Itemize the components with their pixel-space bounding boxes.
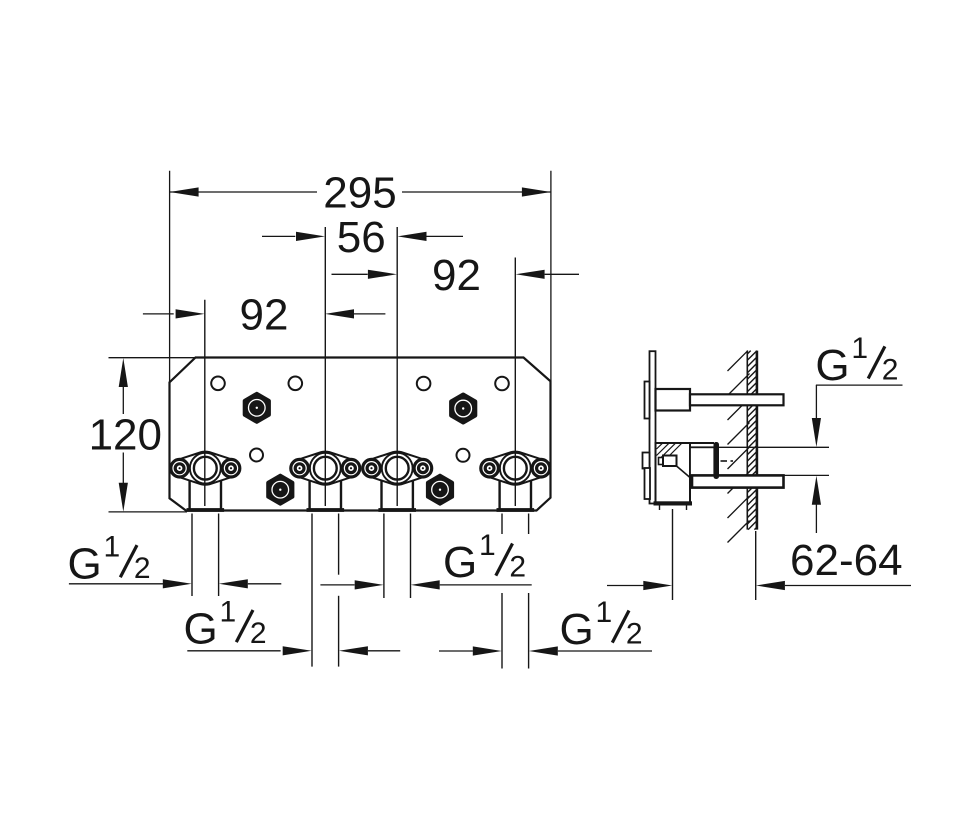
union fitting 3 (wing outline) — [363, 452, 432, 485]
mounting hole 2 (top row) — [289, 377, 303, 391]
62-64 extension line (wall face) — [755, 531, 757, 600]
G 1/2 reference line (thread bottom) — [785, 474, 830, 476]
centre line fitting 1 — [204, 300, 206, 506]
G 1/2 leader and arrows (side view) — [816, 384, 903, 386]
fitting 2 thread extension lines — [311, 514, 313, 667]
tab 4 below fitting — [498, 479, 500, 510]
dimension 295 — [170, 191, 317, 193]
fitting 2 ear screws — [291, 459, 309, 477]
union fitting 1 (wing outline) — [171, 452, 240, 485]
union fitting 2 (wing outline) — [291, 452, 360, 485]
svg-text:G: G — [184, 605, 218, 654]
svg-text:1: 1 — [851, 332, 868, 365]
fitting 3 ear screws — [363, 459, 381, 477]
G 1/2 label (side view) — [813, 337, 903, 393]
dimension 120 extension lines — [109, 357, 197, 359]
svg-text:G: G — [815, 341, 849, 390]
svg-text:120: 120 — [89, 410, 162, 459]
G 1/2 dimension arrows (fitting 4) — [439, 650, 473, 652]
svg-text:62-64: 62-64 — [790, 536, 903, 585]
tab 2 below fitting — [308, 479, 310, 510]
G 1/2 label (fitting 1) — [66, 536, 156, 592]
back plate lower lug — [643, 453, 650, 469]
62-64 dimension arrows — [607, 585, 644, 587]
svg-text:G: G — [68, 540, 102, 589]
svg-text:2: 2 — [250, 617, 267, 650]
mounting hole 4 (top row) — [495, 377, 509, 391]
upper pipe hex socket (side view) — [656, 389, 691, 411]
fitting 3 G1/2 port rings — [382, 453, 413, 484]
rough wall hatching — [728, 351, 748, 371]
tab 3 below fitting — [380, 479, 382, 510]
svg-text:2: 2 — [509, 550, 526, 583]
valve top edge to flange — [690, 442, 714, 444]
back plate upper lug — [645, 382, 650, 419]
svg-text:295: 295 — [323, 169, 396, 218]
finished wall section (dense hatch band) — [746, 351, 748, 530]
fitting 3 thread extension lines — [383, 514, 385, 599]
mounting plate outline (front view) — [170, 358, 551, 511]
svg-text:56: 56 — [337, 213, 386, 262]
back plate (side view) — [650, 351, 656, 503]
fitting 1 ear screws — [171, 459, 189, 477]
hex nipple 2 (upper right) — [451, 395, 475, 423]
small hole (middle left) — [250, 449, 263, 462]
centre line fitting 3 — [396, 227, 398, 506]
fitting 4 ear screws — [481, 459, 499, 477]
G 1/2 label (fitting 2) — [182, 601, 272, 657]
dimension 120 — [122, 387, 124, 415]
svg-text:1: 1 — [479, 529, 496, 562]
svg-text:1: 1 — [220, 596, 237, 629]
hex nipple 1 (upper left) — [245, 394, 269, 422]
svg-text:92: 92 — [432, 251, 481, 300]
G 1/2 reference line (thread top) — [719, 446, 829, 448]
G 1/2 dimension arrows (fitting 2) — [187, 650, 280, 652]
fitting 4 thread extension lines — [501, 514, 503, 536]
G 1/2 dimension arrows (fitting 1) — [69, 583, 163, 585]
G 1/2 label (fitting 3) — [441, 534, 531, 590]
tab 1 below fitting — [188, 479, 190, 510]
dimension 92 (left) — [143, 313, 174, 315]
dimension 295 extension lines — [169, 171, 171, 382]
mounting hole 1 (top row) — [211, 377, 225, 391]
mounting hole 3 (top row) — [417, 377, 431, 391]
svg-text:2: 2 — [882, 353, 899, 386]
svg-text:1: 1 — [596, 596, 613, 629]
G 1/2 label (fitting 4) — [558, 601, 648, 657]
union fitting 4 (wing outline) — [481, 452, 550, 485]
fitting 1 thread extension lines — [191, 514, 193, 597]
dimension 92 (right) — [332, 273, 368, 275]
62-64 extension line (plate face) — [672, 509, 674, 600]
valve screw (side view) — [659, 458, 664, 465]
svg-text:G: G — [560, 605, 594, 654]
tick marks below valve — [659, 506, 661, 511]
62-64 label — [787, 541, 908, 580]
fitting 4 G1/2 port rings — [500, 453, 531, 484]
upper pipe (side view) — [690, 394, 784, 405]
valve cylinder (side view) — [690, 447, 714, 475]
svg-text:1: 1 — [104, 531, 121, 564]
svg-text:92: 92 — [240, 290, 289, 339]
valve base bar — [654, 501, 693, 505]
lower pipe (side view) — [692, 475, 784, 487]
fitting 2 G1/2 port rings — [310, 453, 341, 484]
hex nipple 3 (lower left) — [268, 476, 292, 504]
dimension 56 — [262, 235, 295, 237]
valve body (side view) — [656, 443, 691, 503]
G 1/2 dimension arrows (fitting 3) — [320, 584, 354, 586]
small hole (middle right) — [457, 449, 470, 462]
centre line fitting 2 — [324, 227, 326, 506]
fitting 1 G1/2 port rings — [190, 453, 221, 484]
hex nipple 4 (lower right) — [428, 476, 452, 504]
svg-text:2: 2 — [134, 552, 151, 585]
pipe flange — [714, 442, 720, 479]
centre line fitting 4 — [514, 258, 516, 507]
svg-text:G: G — [443, 538, 477, 587]
valve body chamfer — [677, 466, 691, 478]
svg-text:2: 2 — [626, 617, 643, 650]
valve body corner hatch — [657, 443, 663, 449]
valve centre line dashes — [721, 460, 728, 462]
